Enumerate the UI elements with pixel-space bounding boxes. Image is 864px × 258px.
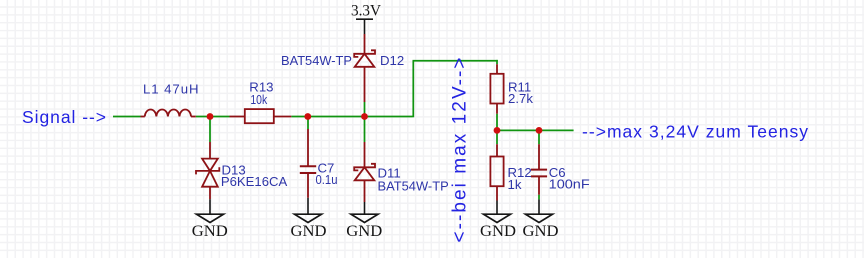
svg-text:10k: 10k	[250, 92, 267, 107]
svg-text:GND: GND	[192, 223, 228, 240]
svg-text:-->max 3,24V zum Teensy: -->max 3,24V zum Teensy	[582, 122, 808, 142]
svg-text:100nF: 100nF	[549, 177, 590, 192]
svg-text:0.1u: 0.1u	[316, 172, 338, 187]
svg-text:3.3V: 3.3V	[351, 3, 381, 20]
svg-text:GND: GND	[291, 223, 327, 240]
svg-text:BAT54W-TP: BAT54W-TP	[378, 179, 449, 194]
svg-text:D12: D12	[380, 53, 404, 68]
svg-text:P6KE16CA: P6KE16CA	[221, 174, 287, 189]
svg-text:BAT54W-TP: BAT54W-TP	[281, 53, 352, 68]
svg-text:Signal -->: Signal -->	[22, 107, 106, 127]
svg-text:<--bei max 12V-->: <--bei max 12V-->	[450, 58, 471, 243]
svg-text:2.7k: 2.7k	[508, 91, 533, 106]
svg-text:GND: GND	[346, 223, 382, 240]
svg-text:GND: GND	[523, 223, 559, 240]
svg-text:1k: 1k	[508, 177, 522, 192]
svg-text:GND: GND	[480, 223, 516, 240]
svg-text:L1 47uH: L1 47uH	[143, 82, 199, 97]
